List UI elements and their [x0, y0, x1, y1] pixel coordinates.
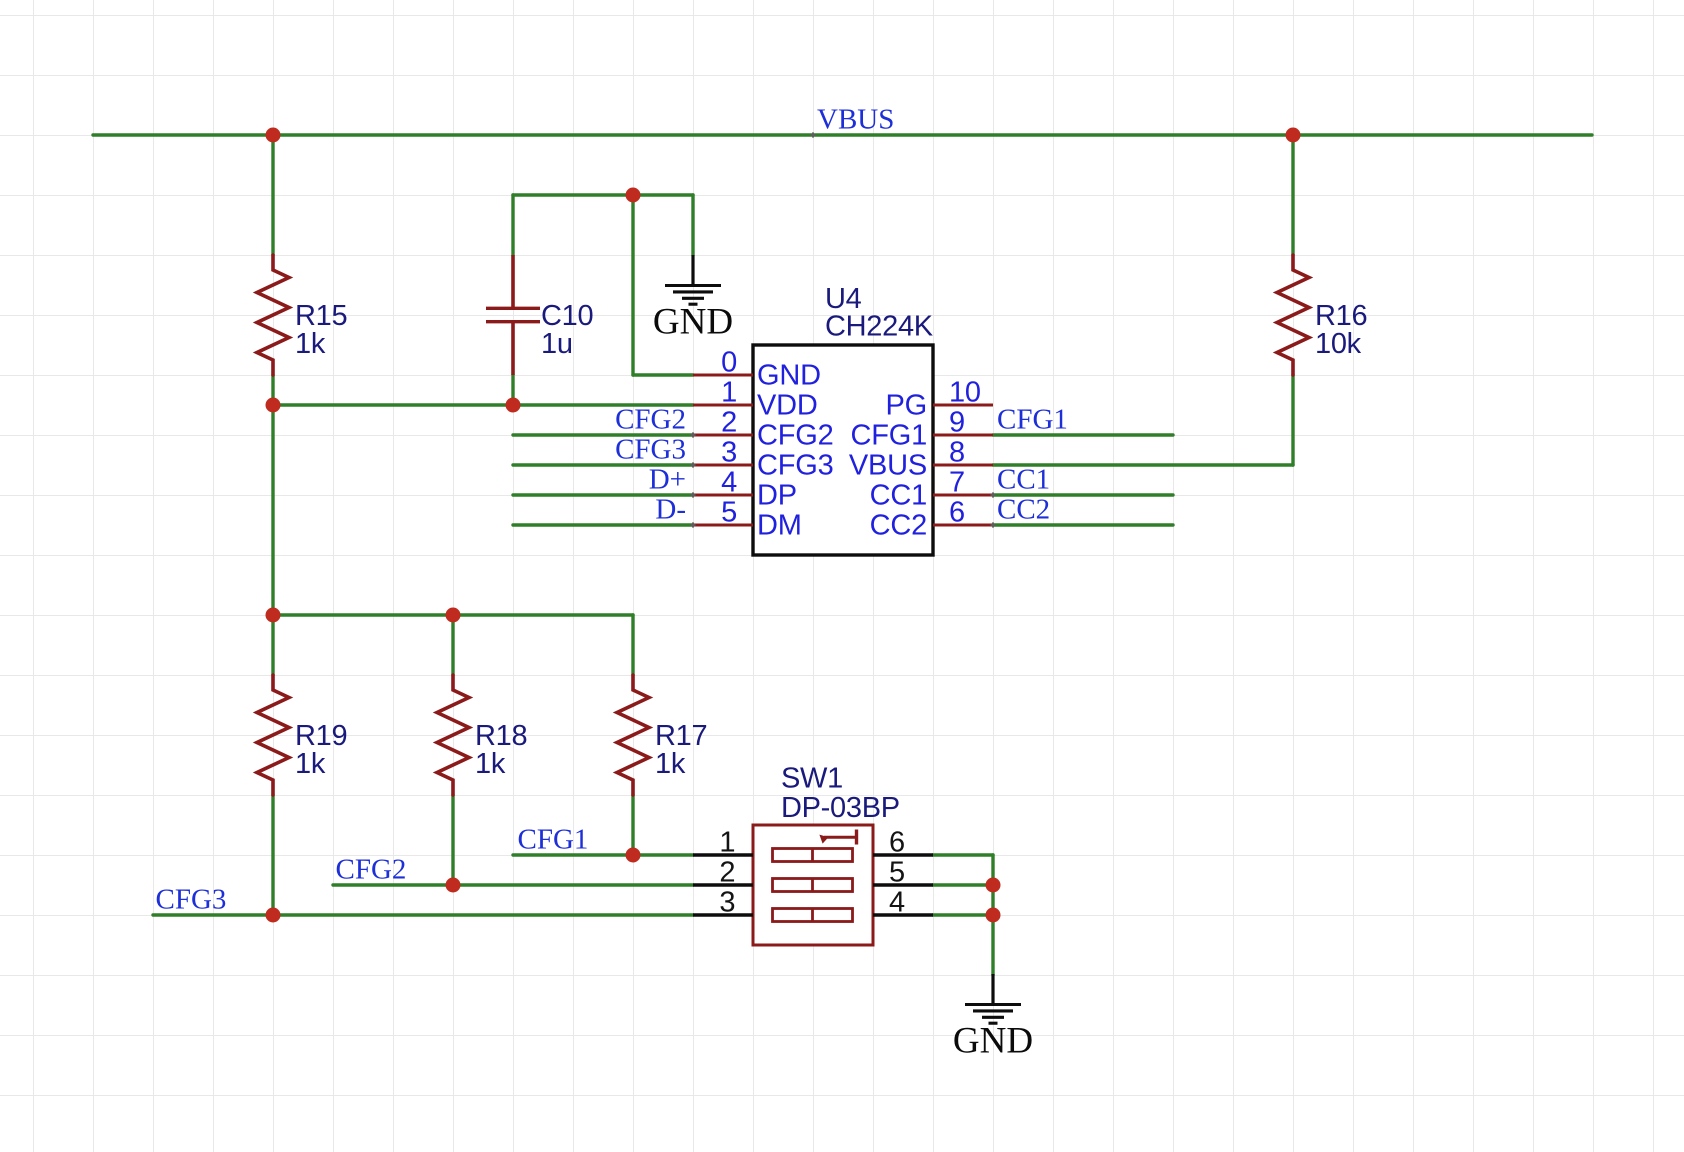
- net anchor cross CFG3 pin3: [690, 462, 695, 467]
- SW1 pin 5: [873, 857, 933, 889]
- U4 pin 10 (PG): [886, 377, 994, 422]
- resistor R15: [257, 255, 347, 375]
- wire SW to GND: [991, 855, 994, 975]
- wire VBUS rail: [93, 133, 1592, 136]
- resistor R19: [257, 675, 347, 795]
- resistor R17: [617, 675, 707, 795]
- junction CFG3/R19: [266, 908, 281, 923]
- U4 pin 2 (CFG2): [693, 407, 834, 452]
- net anchor cross CC1 pin7: [990, 492, 995, 497]
- junction lower rail/R19: [266, 608, 281, 623]
- SW1 pin 3: [693, 887, 753, 919]
- svg-text:CC2: CC2: [870, 510, 927, 542]
- svg-text:6: 6: [889, 827, 905, 859]
- svg-text:VBUS: VBUS: [849, 450, 927, 482]
- svg-text:DP-03BP: DP-03BP: [781, 792, 900, 824]
- switch SW1 body: [753, 763, 900, 946]
- wire lower rail: [273, 613, 633, 616]
- SW1 pin 1: [693, 827, 753, 859]
- resistor R18: [437, 675, 527, 795]
- wire VBUS to R16: [1291, 135, 1294, 255]
- svg-text:CFG2: CFG2: [757, 420, 834, 452]
- ground GND bottom: [953, 974, 1033, 1062]
- svg-text:D-: D-: [655, 494, 686, 526]
- svg-text:CFG3: CFG3: [156, 884, 227, 916]
- junction lower rail/R18: [446, 608, 461, 623]
- wire GND net vertical: [631, 195, 634, 375]
- svg-text:DM: DM: [757, 510, 802, 542]
- svg-text:DP: DP: [757, 480, 797, 512]
- wire D- to pin5: [513, 523, 693, 526]
- wire pin9 CFG1: [993, 433, 1173, 436]
- wire D+ to pin4: [513, 493, 693, 496]
- svg-text:CFG1: CFG1: [518, 824, 589, 856]
- svg-text:PG: PG: [886, 390, 928, 422]
- svg-text:10k: 10k: [1315, 328, 1362, 360]
- svg-text:CFG2: CFG2: [336, 854, 407, 886]
- wire R17 bottom: [631, 795, 634, 855]
- net anchor cross CFG2 pin2: [690, 432, 695, 437]
- U4 pin 5 (DM): [693, 497, 802, 542]
- SW1 switch element 1: [773, 849, 853, 862]
- op-amp U4 body: [753, 283, 934, 555]
- wire pin7 CC1: [993, 493, 1173, 496]
- svg-text:2: 2: [721, 407, 737, 439]
- wire VBUS to R15: [271, 135, 274, 255]
- U4 pin 4 (DP): [693, 467, 797, 512]
- U4 pin 3 (CFG3): [693, 437, 834, 482]
- junction VBUS/R16: [1286, 128, 1301, 143]
- svg-text:VDD: VDD: [757, 390, 818, 422]
- ground GND top: [653, 255, 733, 343]
- net anchor cross VBUS: [810, 132, 815, 137]
- wire R17 top: [631, 615, 634, 675]
- wire CFG2 to pin2: [513, 433, 693, 436]
- wire R18 bottom: [451, 795, 454, 885]
- wire R15 to lower rail: [271, 375, 274, 615]
- wire C10 top lead: [511, 195, 514, 255]
- wire VDD rail: [273, 403, 693, 406]
- wire C10 bottom lead: [511, 375, 514, 405]
- svg-text:10: 10: [949, 377, 981, 409]
- svg-text:1k: 1k: [295, 328, 326, 360]
- wire SW pin4: [933, 913, 993, 916]
- wire CFG2 to SW pin2: [333, 883, 693, 886]
- net anchor cross D- pin5: [690, 522, 695, 527]
- svg-text:CFG3: CFG3: [615, 434, 686, 466]
- svg-text:CFG2: CFG2: [615, 404, 686, 436]
- svg-text:6: 6: [949, 497, 965, 529]
- svg-text:D+: D+: [649, 464, 686, 496]
- wire pin6 CC2: [993, 523, 1173, 526]
- svg-text:1k: 1k: [295, 748, 326, 780]
- wire R19 top: [271, 615, 274, 675]
- wire pin8 VBUS net: [993, 463, 1293, 466]
- svg-text:2: 2: [719, 857, 735, 889]
- SW1 switch element 2: [773, 879, 853, 892]
- junction SW pin5/GND: [986, 878, 1001, 893]
- junction VBUS/R15: [266, 128, 281, 143]
- svg-text:9: 9: [949, 407, 965, 439]
- svg-text:3: 3: [719, 887, 735, 919]
- wire C10 to GND top: [513, 193, 693, 196]
- svg-text:CC2: CC2: [997, 494, 1050, 526]
- svg-text:1: 1: [721, 377, 737, 409]
- SW1 switch element 3: [773, 909, 853, 922]
- U4 pin 7 (CC1): [870, 467, 993, 512]
- svg-text:CFG1: CFG1: [997, 404, 1068, 436]
- wire R18 top: [451, 615, 454, 675]
- U4 pin 8 (VBUS): [849, 437, 993, 482]
- svg-text:1k: 1k: [475, 748, 506, 780]
- junction CFG2/R18: [446, 878, 461, 893]
- svg-text:CC1: CC1: [997, 464, 1050, 496]
- capacitor C10: [486, 255, 593, 375]
- svg-text:CFG3: CFG3: [757, 450, 834, 482]
- U4 pin 9 (CFG1): [850, 407, 993, 452]
- net anchor cross D+ pin4: [690, 492, 695, 497]
- junction VDD/C10: [506, 398, 521, 413]
- junction SW pin4/GND: [986, 908, 1001, 923]
- SW1 arrow marker: [819, 830, 856, 845]
- svg-text:GND: GND: [757, 360, 821, 392]
- wire CFG3 to SW pin3: [153, 913, 693, 916]
- resistor R16: [1277, 255, 1367, 375]
- svg-text:8: 8: [949, 437, 965, 469]
- svg-text:1u: 1u: [541, 328, 573, 360]
- U4 pin 0 (GND): [693, 347, 821, 392]
- wire GND drop: [691, 195, 694, 255]
- wire CFG3 to pin3: [513, 463, 693, 466]
- svg-text:4: 4: [889, 887, 905, 919]
- junction GND net top: [626, 188, 641, 203]
- svg-text:1k: 1k: [655, 748, 686, 780]
- svg-text:7: 7: [949, 467, 965, 499]
- svg-text:GND: GND: [653, 302, 733, 343]
- U4 pin 1 (VDD): [693, 377, 818, 422]
- svg-text:CC1: CC1: [870, 480, 927, 512]
- svg-text:3: 3: [721, 437, 737, 469]
- svg-text:4: 4: [721, 467, 737, 499]
- wire CFG1 to SW pin1: [513, 853, 693, 856]
- SW1 pin 6: [873, 827, 933, 859]
- wire to U4 pin0: [633, 373, 693, 376]
- svg-text:VBUS: VBUS: [817, 104, 894, 136]
- svg-text:GND: GND: [953, 1021, 1033, 1062]
- svg-text:CH224K: CH224K: [825, 311, 934, 343]
- SW1 pin 4: [873, 887, 933, 919]
- junction VDD/R15: [266, 398, 281, 413]
- wire SW pin6: [933, 853, 993, 856]
- SW1 pin 2: [693, 857, 753, 889]
- junction CFG1/R17: [626, 848, 641, 863]
- svg-text:1: 1: [719, 827, 735, 859]
- svg-text:SW1: SW1: [781, 763, 843, 795]
- wire R16 bottom: [1291, 375, 1294, 465]
- svg-text:5: 5: [889, 857, 905, 889]
- wire R19 bottom: [271, 795, 274, 915]
- wire SW pin5: [933, 883, 993, 886]
- svg-text:5: 5: [721, 497, 737, 529]
- svg-text:0: 0: [721, 347, 737, 379]
- net anchor cross CC2 pin6: [990, 522, 995, 527]
- U4 pin 6 (CC2): [870, 497, 993, 542]
- svg-text:CFG1: CFG1: [850, 420, 927, 452]
